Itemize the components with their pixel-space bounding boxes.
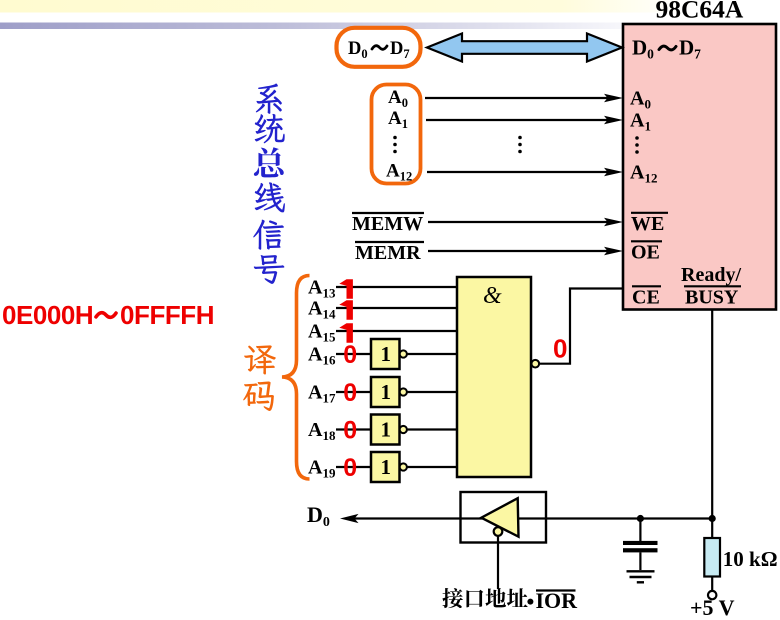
data bus double-headed arrow <box>427 34 622 62</box>
wire A0 to chip <box>425 97 609 99</box>
svg-text:IOR: IOR <box>536 588 579 613</box>
svg-text:D0: D0 <box>307 502 330 530</box>
wire to D0 with left arrowhead <box>340 514 359 523</box>
wire AND output to CE <box>539 289 623 364</box>
svg-text:0: 0 <box>343 341 357 369</box>
inverter for A19 <box>371 452 400 482</box>
svg-text:MEMR: MEMR <box>355 242 421 264</box>
tri-state buffer triangle <box>481 498 518 537</box>
wire from Ready/BUSY pin <box>711 310 713 539</box>
buffer enable bubble <box>494 527 503 536</box>
caption: port address . IOR <box>442 588 463 608</box>
svg-text:MEMW: MEMW <box>352 213 423 235</box>
wire resistor to +5V <box>711 577 713 591</box>
lavender divider bar <box>0 23 780 30</box>
svg-text:0: 0 <box>343 379 357 407</box>
svg-text:0: 0 <box>343 417 357 445</box>
inverter for A17 <box>371 377 400 407</box>
blue caption: system bus signals <box>256 83 282 113</box>
junction dot at resistor <box>709 515 716 522</box>
AND output bubble (active-low) <box>532 360 540 368</box>
svg-text:1: 1 <box>381 342 392 366</box>
svg-text:+5 V: +5 V <box>690 595 735 620</box>
ground <box>627 570 655 572</box>
svg-text:A19: A19 <box>308 457 336 481</box>
logic level 1 on A14 <box>339 300 353 319</box>
enable wire <box>497 536 499 589</box>
svg-text:1: 1 <box>381 418 392 442</box>
svg-text:98C64A: 98C64A <box>656 0 744 24</box>
wire A1 to chip <box>426 119 609 121</box>
orange grouping brace for A13..A19 <box>282 276 310 480</box>
AND gate (decoder) <box>457 277 531 477</box>
chip ellipsis <box>635 136 639 154</box>
wire A12 to chip <box>427 171 609 173</box>
svg-text:0: 0 <box>343 454 357 482</box>
resistor R1 10k <box>704 538 720 577</box>
svg-text:10 kΩ: 10 kΩ <box>723 547 778 571</box>
svg-text:A14: A14 <box>308 298 336 322</box>
wire MEMW to WE <box>428 221 609 223</box>
tri-state buffer box <box>461 492 547 543</box>
svg-text:OE: OE <box>631 242 660 264</box>
capacitor C1 <box>639 519 641 542</box>
top yellow band <box>0 0 780 13</box>
svg-text:0FFFFH: 0FFFFH <box>120 300 214 330</box>
svg-text:1: 1 <box>381 455 392 479</box>
svg-text:CE: CE <box>632 287 660 309</box>
+5V terminal <box>708 591 716 599</box>
svg-text:A16: A16 <box>308 344 336 368</box>
svg-text:0: 0 <box>553 333 567 363</box>
logic level 1 on A15 <box>339 323 353 342</box>
inverter for A16 <box>371 339 400 369</box>
logic level 1 on A13 <box>339 279 353 298</box>
svg-text:&: & <box>483 283 502 309</box>
bus ellipsis between A1 and A12 wires <box>518 136 522 154</box>
svg-text:0E000H: 0E000H <box>2 300 93 330</box>
data bus label bubble D0~D7 <box>337 28 421 67</box>
junction dot at capacitor <box>637 515 644 522</box>
svg-text:A17: A17 <box>308 382 336 406</box>
orange caption: decode <box>244 345 276 374</box>
inverter for A18 <box>371 415 400 445</box>
svg-text:A15: A15 <box>308 321 336 345</box>
svg-text:BUSY: BUSY <box>685 287 739 309</box>
wire MEMR to OE <box>428 250 609 252</box>
svg-text:1: 1 <box>381 380 392 404</box>
svg-text:A18: A18 <box>308 419 336 443</box>
bubble ellipsis <box>393 136 397 154</box>
memory chip U1 98C64A body <box>623 24 776 310</box>
svg-text:Ready/: Ready/ <box>681 264 741 286</box>
svg-text:WE: WE <box>631 213 664 235</box>
address bus label bubble A0..A12 <box>372 85 421 184</box>
